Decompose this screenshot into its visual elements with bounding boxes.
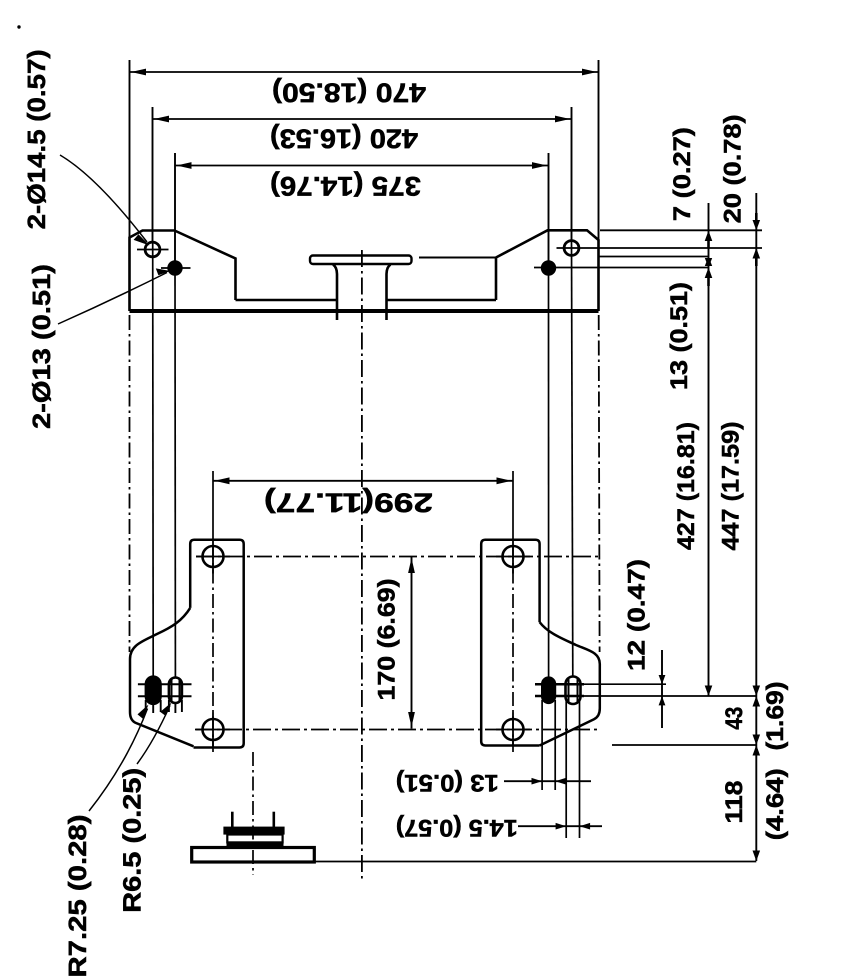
ground line [314, 861, 756, 863]
leader 2-d13 [58, 273, 167, 325]
foot mid band [227, 835, 282, 843]
arrows on x=756.3 [753, 220, 761, 230]
ext line C surface [599, 256, 709, 258]
svg-text:20 (0.78): 20 (0.78) [719, 114, 746, 223]
plate hole lower-left (213,729.5) [203, 719, 224, 740]
ext line B upper hole center [557, 247, 763, 249]
foot stud left [231, 812, 234, 827]
right plate outline [481, 540, 539, 746]
foot centerline x=253 [252, 752, 254, 875]
foot stud right [272, 812, 275, 827]
slot side ext lines right below (13 dim) [542, 700, 555, 790]
left bracket S-curve and foot [130, 608, 194, 746]
svg-text:420 (16.53): 420 (16.53) [270, 124, 418, 154]
bracket bottom ext line for 43/118 [612, 744, 756, 746]
dim 420 line [153, 118, 572, 120]
slot right-outer (573,690) w14.5 [566, 677, 581, 705]
svg-text:(1.69): (1.69) [762, 682, 789, 751]
dim line 20/447/43/118 vertical x=756.3 [755, 193, 757, 861]
dim 14.5 bottom arrows [518, 825, 602, 827]
svg-text:13 (0.51): 13 (0.51) [666, 282, 693, 390]
slot left-inner (175.4,690) w13 [169, 678, 182, 704]
right bracket S-curve and foot [540, 622, 600, 745]
svg-text:170 (6.69): 170 (6.69) [374, 579, 401, 701]
centerline left edge x=129.5 [129, 315, 131, 652]
plate hole vertical centerline left x=213 [212, 545, 214, 752]
slot cross line upper right [535, 683, 584, 686]
svg-text:427 (16.81): 427 (16.81) [673, 422, 700, 550]
dim 12 line x=662 [661, 650, 663, 728]
svg-text:299(11.77): 299(11.77) [264, 488, 433, 518]
rail top line right [387, 299, 497, 301]
slot right-inner (548.6,690) w13 filled [542, 678, 555, 704]
dim line 7/13/427 vertical x=708.5 [708, 203, 710, 696]
foot top bar filled [223, 827, 284, 835]
svg-text:7 (0.27): 7 (0.27) [669, 127, 696, 221]
centerline main x=362 [361, 250, 363, 882]
dim 299 line [213, 480, 513, 482]
leader 2-d14.5 [60, 155, 147, 242]
left bracket outline [130, 231, 236, 312]
link line x=548.5 hole to slot [548, 262, 550, 677]
svg-text:2-Ø14.5 (0.57): 2-Ø14.5 (0.57) [23, 49, 51, 229]
plate hole upper-right (513,556.5) [503, 546, 524, 567]
hole 2-d14.5 right (571.5,248) [564, 241, 579, 256]
svg-text:2-Ø13 (0.51): 2-Ø13 (0.51) [28, 264, 56, 429]
arrows on x=708.5 [705, 231, 713, 241]
T web right line [387, 265, 391, 321]
svg-text:470 (18.50): 470 (18.50) [272, 78, 426, 108]
slot side ext lines right below (14.5 dim) [566, 700, 579, 838]
hole 2-d14.5 left (152.5,249.5) [145, 242, 160, 257]
plate hole lower-right (513,729.5) [503, 719, 524, 740]
svg-text:13 (0.51): 13 (0.51) [396, 769, 499, 796]
svg-text:447 (17.59): 447 (17.59) [717, 422, 744, 551]
T-flange bar [310, 256, 412, 265]
svg-text:12 (0.47): 12 (0.47) [624, 559, 651, 671]
ext line D lower hole center [534, 267, 709, 269]
rail top line left [236, 299, 338, 301]
foot base plate [192, 848, 315, 863]
svg-text:118: 118 [721, 781, 748, 824]
plate hole upper-left (213,556.5) [203, 546, 224, 567]
svg-text:(4.64): (4.64) [762, 768, 789, 840]
foot lower bold band [227, 842, 284, 847]
dim 470 line [130, 71, 599, 73]
right bracket surface line [419, 257, 496, 259]
hole center row lower y=729.5 [195, 729, 600, 731]
link line x=175 hole to slot [174, 262, 176, 677]
leader R6.5 [137, 706, 170, 765]
right bracket outline [496, 230, 599, 311]
dim 170 line [411, 557, 413, 729]
svg-text:43: 43 [721, 707, 748, 730]
dim 13 bottom arrows [504, 780, 591, 782]
slot left-outer (153.2,690) w14.5 filled [146, 677, 161, 705]
T web left line [333, 265, 337, 321]
hole center row upper y=556.5 [196, 556, 600, 558]
svg-text:R7.25 (0.28): R7.25 (0.28) [64, 815, 92, 978]
dim 375 line [175, 165, 549, 167]
leader R7.25 [89, 709, 148, 812]
plate hole vertical centerline right x=513 [512, 545, 514, 752]
centerline right edge x=599 [598, 315, 601, 652]
hole 2-d13 right (548.5,268) filled [542, 261, 555, 274]
slot cross line lower right / 43 top ext [535, 695, 584, 698]
slot stubs below left [146, 700, 182, 713]
link line x=571.5 hole to slot [572, 242, 573, 678]
svg-text:14.5 (0.57): 14.5 (0.57) [396, 814, 518, 841]
link line x=152.5 hole to slot [152, 243, 155, 677]
left plate outline [190, 540, 244, 748]
svg-text:375 (14.76): 375 (14.76) [270, 171, 421, 201]
slot cross line lower left [138, 695, 192, 697]
speck top-left [17, 25, 20, 28]
svg-text:R6.5 (0.25): R6.5 (0.25) [119, 768, 147, 913]
base bottom bold line [130, 309, 599, 313]
hole 2-d13 left (175,268) filled [168, 261, 181, 274]
slot cross line upper left [138, 683, 192, 685]
ext line A top edge [600, 229, 762, 231]
